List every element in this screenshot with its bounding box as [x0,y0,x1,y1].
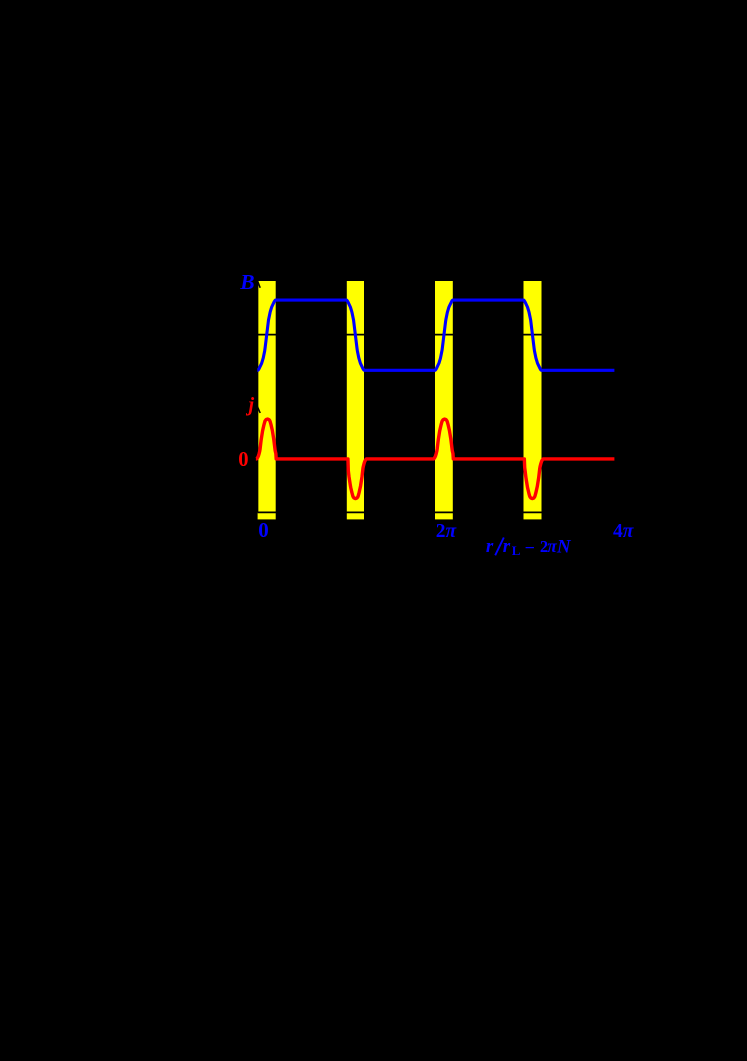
svg-text:π: π [547,536,557,556]
svg-text:−: − [525,538,535,558]
svg-text:0: 0 [258,518,269,542]
svg-text:4π: 4π [613,521,635,542]
yellow band 3 (current sheet at 2pi) [435,281,453,519]
red current density j curve [256,419,615,499]
svg-text:2π: 2π [436,521,458,542]
black B axis with arrowhead [255,281,260,512]
black x axis [258,511,640,513]
black B=0 mid line [258,334,615,336]
yellow band 2 (current sheet at pi) [347,281,364,519]
yellow band 4 (current sheet at 3pi) [524,281,542,519]
svg-text:r: r [503,536,511,557]
blue magnetic field B curve [257,300,614,370]
svg-text:r: r [486,536,494,557]
svg-text:L: L [512,543,521,558]
black j axis arrowhead [255,407,260,413]
axis label slash [495,538,504,556]
svg-text:0: 0 [238,449,248,471]
yellow band 1 (current sheet at 0) [258,281,276,519]
svg-text:N: N [556,536,572,557]
svg-text:B: B [239,270,254,294]
